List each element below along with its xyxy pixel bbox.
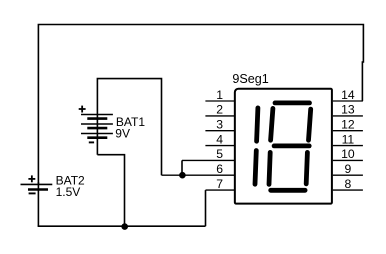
svg-text:4: 4: [216, 132, 223, 146]
segment G middle: [274, 143, 309, 148]
pin 5-6 stub: [181, 160, 183, 175]
-: [29, 192, 36, 194]
svg-text:7: 7: [216, 177, 223, 191]
7-seg display U: 9Seg1 box: [235, 89, 332, 204]
pin 10 wire: [333, 159, 363, 161]
segment E lower-left: [269, 152, 270, 184]
wire from + up and right then down to pin6: [97, 79, 161, 176]
pin 11 wire: [333, 145, 363, 147]
junction dot pins 5-6: [179, 172, 186, 179]
battery BAT1: [79, 79, 162, 227]
svg-text:9V: 9V: [115, 126, 130, 140]
svg-text:3: 3: [216, 118, 223, 132]
svg-text:12: 12: [341, 118, 355, 132]
plates long/short x3: [81, 114, 113, 116]
segment A top: [275, 101, 310, 106]
pin 7 wire: [206, 189, 235, 191]
svg-text:2: 2: [216, 103, 223, 117]
svg-text:9Seg1: 9Seg1: [232, 72, 268, 86]
wire below: [97, 155, 124, 227]
junction dot bottom: [121, 223, 128, 230]
svg-text:11: 11: [342, 132, 355, 146]
pin 6 wire: [162, 174, 235, 176]
-: [89, 141, 94, 143]
pin 2 wire: [205, 115, 234, 117]
segment C lower-right: [306, 152, 307, 184]
7-seg digit 1 (left): [255, 108, 258, 184]
wire pin7 riser: [205, 190, 207, 226]
+: [79, 108, 86, 110]
pin 12 wire: [333, 130, 363, 132]
svg-text:1.5V: 1.5V: [56, 185, 81, 199]
battery BAT2: [21, 175, 53, 226]
svg-text:1: 1: [216, 88, 223, 102]
pin 3 wire: [205, 130, 234, 132]
svg-text:6: 6: [216, 162, 223, 176]
svg-text:14: 14: [341, 88, 355, 102]
pin 4 wire: [205, 145, 234, 147]
plates: [21, 183, 53, 185]
svg-text:10: 10: [341, 147, 355, 161]
7-seg digit 8 (right): [269, 103, 311, 190]
+: [28, 178, 35, 180]
wire top loop: [38, 25, 363, 185]
svg-text:8: 8: [345, 177, 352, 191]
segment F upper-left: [271, 108, 273, 140]
svg-text:5: 5: [216, 147, 223, 161]
pin 5 wire: [182, 159, 234, 161]
segment B upper-right: [309, 109, 311, 140]
pin 1 wire: [205, 100, 234, 102]
wire below: [37, 182, 39, 226]
svg-text:9: 9: [345, 162, 352, 176]
wire bottom: [38, 225, 206, 227]
pin 13 wire: [333, 115, 363, 117]
svg-text:13: 13: [341, 103, 355, 117]
segment D bottom: [271, 188, 305, 193]
pin 8 wire: [333, 189, 363, 191]
pin 14 wire: [333, 100, 363, 102]
pin 9 wire: [333, 174, 363, 176]
